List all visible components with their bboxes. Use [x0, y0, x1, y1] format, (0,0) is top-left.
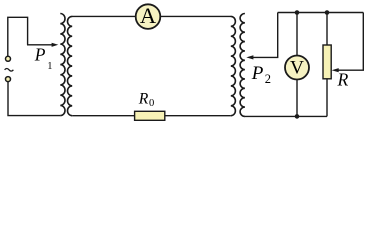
wire V bottom lead [296, 80, 298, 117]
arrow R wiper [332, 68, 339, 72]
wire source top lead [8, 17, 28, 56]
wire R top lead [326, 13, 328, 46]
node junction top V [295, 10, 300, 15]
wire top bus down right edge to wiper [337, 13, 363, 71]
arrow P2 wiper [246, 13, 277, 60]
svg-text:R: R [138, 90, 149, 107]
svg-text:V: V [290, 58, 304, 79]
wire T1 secondary top to ammeter [72, 15, 135, 17]
svg-text:P: P [34, 45, 46, 65]
svg-text:R: R [337, 69, 349, 89]
wire V top lead [296, 13, 298, 56]
wire source bottom lead [8, 82, 60, 116]
wire ammeter to T2 primary top [160, 15, 231, 17]
AC source terminal upper [6, 56, 11, 61]
resistor R [323, 45, 331, 79]
transformer T2 secondary winding [240, 14, 245, 117]
node junction top R [325, 10, 330, 15]
resistor R0 [135, 111, 165, 120]
svg-text:1: 1 [47, 61, 52, 72]
svg-text:P: P [251, 63, 264, 84]
AC source tilde [5, 69, 14, 72]
svg-text:0: 0 [149, 98, 154, 109]
wire R bottom lead [326, 79, 328, 117]
transformer T2 primary winding [231, 16, 236, 115]
wire T1 secondary bottom to R0 [72, 115, 134, 117]
ammeter A1 [136, 3, 161, 29]
wire secondary top bus [278, 12, 364, 14]
node junction bottom V [295, 114, 300, 119]
wire secondary bottom bus [245, 115, 327, 117]
transformer T1 primary winding [60, 14, 65, 116]
voltmeter V1 [285, 56, 309, 80]
svg-text:A: A [140, 3, 156, 28]
transformer T1 secondary winding [68, 16, 73, 115]
AC source terminal lower [6, 77, 11, 82]
svg-text:2: 2 [265, 72, 271, 86]
wire R0 to T2 primary bottom [165, 115, 231, 117]
arrow P1 wiper [27, 43, 58, 47]
